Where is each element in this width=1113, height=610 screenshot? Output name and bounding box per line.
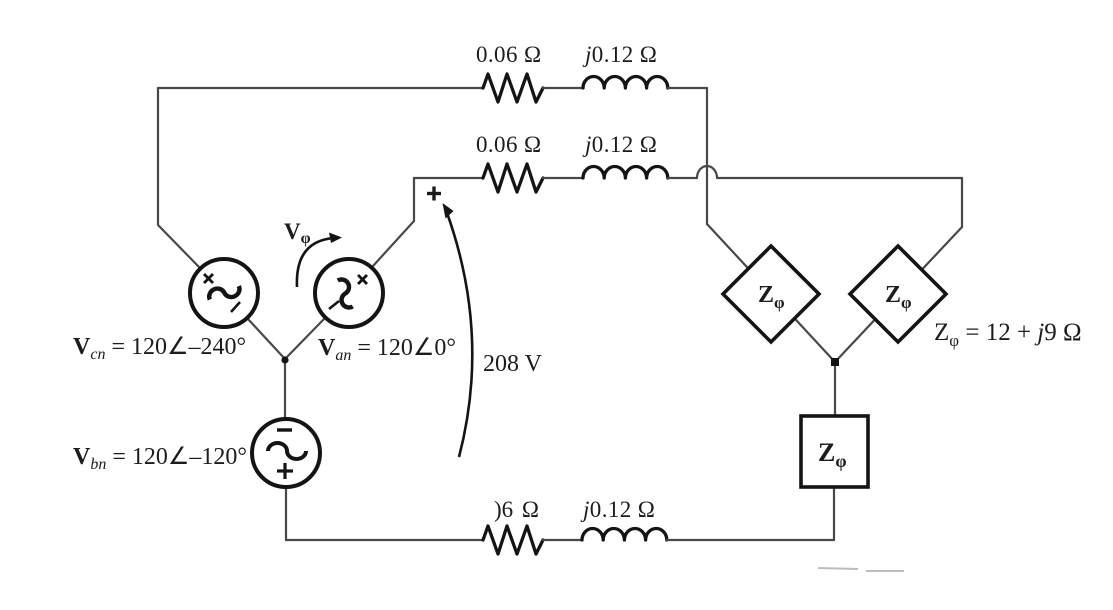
inductor j0.12 ohm line b xyxy=(583,167,668,179)
svg-text:0.06 Ω: 0.06 Ω xyxy=(476,132,542,157)
source Vcn circle xyxy=(190,259,258,327)
source Vbn sine xyxy=(268,443,306,459)
impedance Zphi left diamond xyxy=(723,246,819,342)
wire line a to right corner xyxy=(668,88,707,224)
wire between R and L line a xyxy=(543,87,583,89)
wire left vertical from line a down to source Vcn xyxy=(158,88,199,267)
wire load node down to square Z xyxy=(834,362,836,416)
wire source Van up to corner of line b xyxy=(373,178,414,266)
faint scan artifact marks xyxy=(818,568,904,571)
source Van minus mark xyxy=(329,301,339,309)
source Van plus mark xyxy=(358,275,367,284)
label plus polarity at line b xyxy=(427,187,441,201)
wire line c to load neutral xyxy=(667,488,834,540)
neutral node of sources xyxy=(281,356,288,363)
resistor 0.06 ohm line a xyxy=(483,74,543,102)
wire line b with hop over line a vertical xyxy=(668,166,962,227)
resistor 06 ohm line c xyxy=(483,526,543,554)
arrow 208 V curved xyxy=(443,203,473,457)
wire line b: left corner from source Van xyxy=(414,177,483,179)
wire source Vbn down to line c xyxy=(285,488,287,540)
wire source Van to neutral node xyxy=(285,319,324,359)
wire line b diagonal into right diamond xyxy=(835,227,962,362)
svg-text:)6 Ω: )6 Ω xyxy=(494,497,539,522)
source Van sine xyxy=(331,277,359,310)
arrow Vphi curved xyxy=(297,233,342,288)
source Vcn sine xyxy=(207,279,242,306)
wire line c left horizontal xyxy=(286,539,483,541)
inductor j0.12 ohm line c xyxy=(582,529,667,541)
impedance Zphi right diamond xyxy=(850,246,946,342)
svg-text:j0.12 Ω: j0.12 Ω xyxy=(582,42,657,67)
source Vbn minus mark xyxy=(277,428,292,431)
wire between R and L line b xyxy=(543,177,583,179)
source Vbn plus mark xyxy=(277,463,293,479)
wire top line a: left horizontal xyxy=(158,87,483,89)
source Vcn plus mark xyxy=(204,274,213,283)
resistor 0.06 ohm line b xyxy=(483,164,543,192)
source Van circle xyxy=(315,259,383,327)
inductor j0.12 ohm line a xyxy=(583,76,668,88)
wire between R and L line c xyxy=(543,539,582,541)
source Vbn circle xyxy=(252,419,320,487)
svg-text:0.06 Ω: 0.06 Ω xyxy=(476,42,542,67)
load neutral node xyxy=(831,358,839,366)
svg-text:208 V: 208 V xyxy=(483,351,543,377)
impedance Zphi square xyxy=(801,416,868,487)
source Vcn minus mark xyxy=(231,302,240,312)
svg-text:j0.12 Ω: j0.12 Ω xyxy=(580,497,655,522)
wire neutral node down to source Vbn xyxy=(284,359,286,418)
wire line a diagonal into left diamond xyxy=(707,224,835,362)
svg-text:j0.12 Ω: j0.12 Ω xyxy=(582,132,657,157)
wire source Vcn to neutral node xyxy=(248,319,285,359)
